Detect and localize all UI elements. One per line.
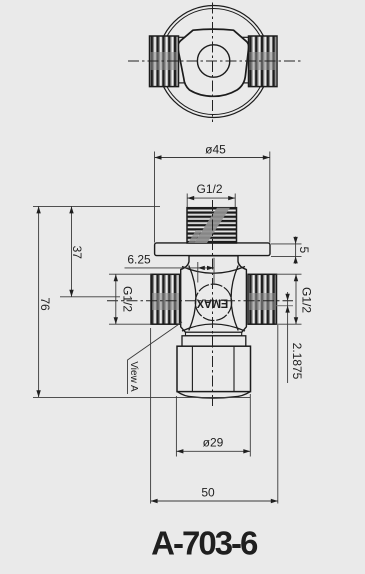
- dim 5 right: [271, 237, 302, 264]
- right stub middle band: [249, 293, 276, 310]
- right collar (top view): [237, 37, 250, 83]
- nut bottom chamfer: [177, 392, 251, 399]
- top threaded stub: [187, 208, 237, 243]
- svg-text:37: 37: [70, 246, 84, 260]
- svg-text:50: 50: [201, 486, 215, 500]
- thread gray swath: [194, 208, 230, 243]
- bonnet step: [182, 336, 246, 346]
- left threaded stub (top view): [150, 36, 179, 87]
- left tv stub middle band: [151, 52, 178, 70]
- left collar (top view): [176, 37, 190, 83]
- dim phi45: [155, 152, 270, 243]
- vertical centerline (top view): [212, 3, 214, 123]
- svg-text:View A: View A: [128, 361, 139, 392]
- thread gray swath 2: [188, 230, 202, 243]
- astroid arc bottom: [182, 324, 245, 331]
- right threaded stub (top view): [249, 36, 278, 87]
- astroid arc left: [189, 266, 196, 331]
- left threaded stub (front): [151, 274, 180, 324]
- body outline: [181, 256, 247, 332]
- bonnet band: [186, 332, 242, 336]
- dim 76: [33, 206, 250, 397]
- dim 50: [151, 325, 278, 504]
- nut flat line left: [191, 346, 193, 391]
- astroid arc right: [231, 266, 238, 331]
- horizontal centerline (front): [107, 300, 293, 302]
- dim G1/2 right: [276, 274, 302, 324]
- right threaded stub (front): [248, 274, 277, 324]
- central circle: [195, 284, 231, 320]
- flange outer rim circle (top view): [158, 6, 270, 118]
- svg-text:G1/2: G1/2: [121, 286, 135, 312]
- hex body (top view): [178, 29, 249, 96]
- dim G1/2 left: [109, 274, 152, 324]
- horizontal centerline (top view): [128, 60, 302, 62]
- flange inner rim circle (top view): [161, 9, 267, 115]
- dim 2.1875: [287, 292, 289, 383]
- svg-text:G1/2: G1/2: [300, 287, 314, 313]
- svg-text:G1/2: G1/2: [196, 182, 222, 196]
- seat hidden line (gray): [277, 305, 294, 307]
- astroid arc top: [182, 267, 245, 274]
- svg-text:ø45: ø45: [205, 143, 226, 157]
- dim phi29: [176, 394, 250, 457]
- svg-text:76: 76: [38, 297, 52, 311]
- vertical centerline (front): [212, 200, 214, 409]
- svg-text:ø29: ø29: [203, 436, 224, 450]
- svg-text:2.1875: 2.1875: [290, 343, 304, 380]
- right tv stub middle band: [250, 52, 277, 70]
- svg-text:5: 5: [297, 246, 311, 253]
- dim G1/2 top: [187, 194, 235, 208]
- left stub middle band: [152, 293, 179, 310]
- flange plate: [155, 243, 270, 256]
- svg-text:6.25: 6.25: [127, 253, 151, 267]
- view A leader: [128, 322, 183, 394]
- dim 6.25: [125, 258, 215, 284]
- nut flat line right: [233, 346, 235, 391]
- svg-text:A-703-6: A-703-6: [151, 525, 258, 562]
- center bore circle (top view): [197, 45, 229, 77]
- nut: [177, 346, 251, 391]
- dim 37: [33, 206, 160, 296]
